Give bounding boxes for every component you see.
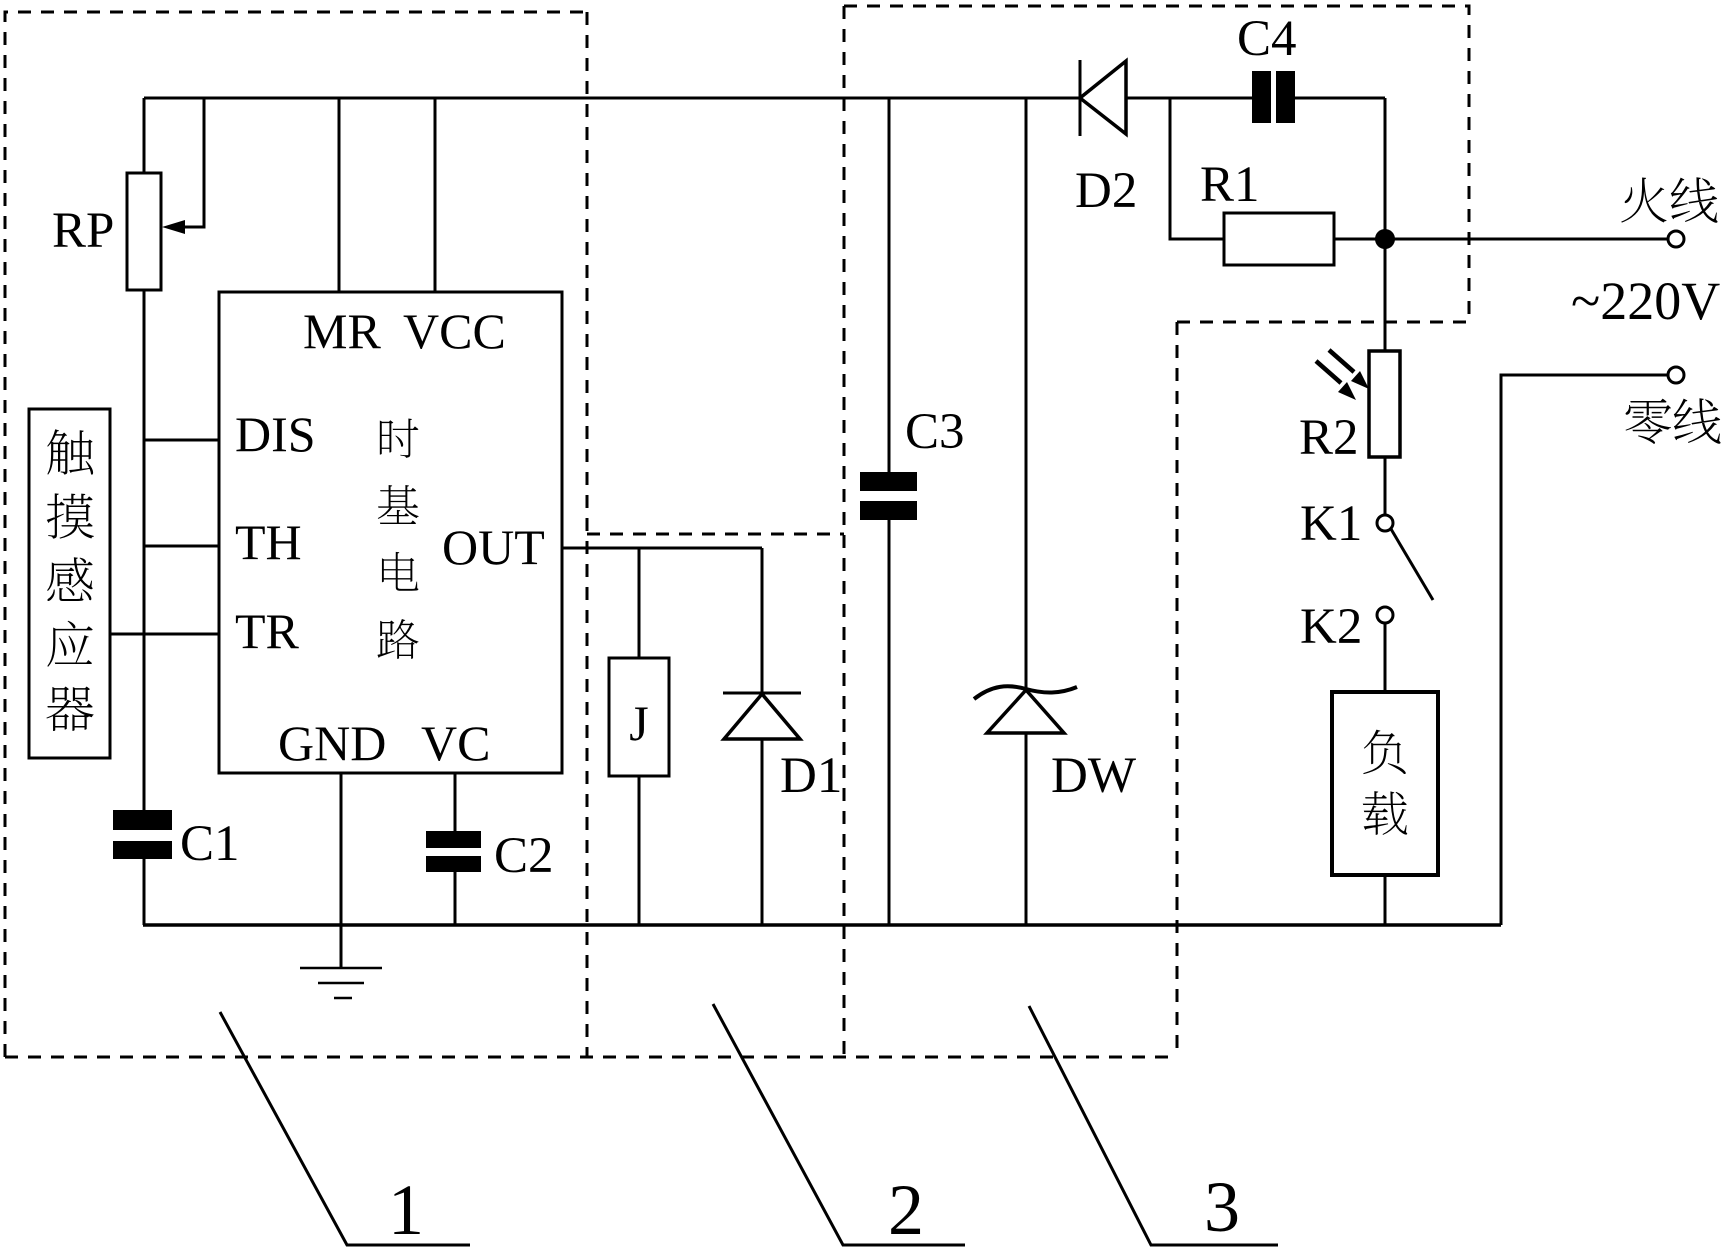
wire: neutral riser and terminal lead xyxy=(1501,375,1668,925)
svg-text:MR: MR xyxy=(303,303,381,359)
R2 light arrow 2 xyxy=(1316,361,1341,383)
wire: RP wiper from rail xyxy=(184,98,204,227)
svg-text:3: 3 xyxy=(1204,1167,1240,1247)
wire: load to bus xyxy=(1384,875,1387,925)
svg-text:C3: C3 xyxy=(905,404,965,460)
dashed power-supply box top and right xyxy=(844,6,1469,321)
switch contact K1 xyxy=(1377,515,1393,531)
leader line for label 1 xyxy=(220,1012,470,1245)
R2 light arrow 1 xyxy=(1329,350,1354,372)
wire: relay J to bus xyxy=(638,776,641,925)
wire: pin DIS stub xyxy=(144,439,219,442)
ground symbol xyxy=(300,968,382,998)
svg-text:VC: VC xyxy=(421,715,490,771)
leader line for label 2 xyxy=(713,1004,965,1245)
load box 负载 xyxy=(1332,692,1438,875)
diode D1 cathode bar xyxy=(723,692,801,695)
wire: R2 to K1 xyxy=(1384,457,1387,515)
resistor R1 body xyxy=(1224,213,1334,265)
svg-text:OUT: OUT xyxy=(442,519,545,575)
wire: pin TR from touch sensor xyxy=(110,633,219,636)
wire: top VCC rail xyxy=(144,97,1385,100)
svg-text:RP: RP xyxy=(52,203,114,259)
dashed box 3 (load switch section) top and left xyxy=(1177,322,1469,1057)
svg-text:1: 1 xyxy=(388,1170,424,1250)
wire: C1 to ground bus xyxy=(143,859,146,925)
svg-text:D1: D1 xyxy=(780,748,842,804)
svg-text:R1: R1 xyxy=(1200,157,1260,213)
dashed box 2 (relay drive section) top edge xyxy=(587,533,844,536)
wire: C2 to bus xyxy=(454,872,457,925)
wire: DW branch from rail to bus xyxy=(1025,98,1028,925)
zener DW triangle xyxy=(987,690,1064,733)
label 零线 xyxy=(1626,398,1721,443)
terminal: live wire 火线 xyxy=(1668,231,1684,247)
capacitor C1 plates xyxy=(113,810,172,830)
wire: drop to relay J xyxy=(638,548,641,658)
wire: pin GND down through bus to ground xyxy=(340,773,343,968)
svg-text:TR: TR xyxy=(235,603,300,659)
zener DW curved cathode xyxy=(974,686,1077,699)
diode D2 cathode bar xyxy=(1079,60,1082,136)
svg-text:K1: K1 xyxy=(1300,496,1362,552)
wire: pin VCC to rail xyxy=(434,98,437,292)
svg-text:D2: D2 xyxy=(1075,163,1137,219)
IC U1 time-base circuit box xyxy=(219,292,562,773)
wire: K2 to load xyxy=(1384,623,1387,692)
svg-text:C2: C2 xyxy=(494,828,554,884)
wire: RP bottom down to C1 xyxy=(143,290,146,811)
svg-text:C1: C1 xyxy=(180,816,240,872)
wire: D1 branch xyxy=(761,548,764,925)
wire: R1 to node and out to live terminal xyxy=(1334,238,1668,241)
capacitor C4 plates xyxy=(1252,71,1271,123)
wire: bottom common bus xyxy=(143,923,1501,927)
wire: pin VC down to C2 xyxy=(454,773,457,831)
IC text 时基电路 xyxy=(377,419,418,659)
capacitor C2 plates xyxy=(426,831,481,848)
svg-text:C4: C4 xyxy=(1237,11,1297,67)
touch sensor box 触摸感应器 xyxy=(29,409,110,758)
wire: C3 branch from rail to bus xyxy=(888,98,891,925)
load text 负载 xyxy=(1363,730,1407,835)
RP wiper arrowhead xyxy=(162,220,185,234)
svg-text:DW: DW xyxy=(1051,748,1137,804)
wire: pin MR to rail xyxy=(338,98,341,292)
capacitor C3 plates xyxy=(860,472,917,491)
diode D1 triangle xyxy=(724,694,800,739)
dashed bottom edge of boxes 1,2,3 xyxy=(5,1056,1177,1059)
wire: C4 right down to node, on to R2 xyxy=(1384,98,1387,352)
wire: pin TH stub xyxy=(144,545,219,548)
dashed box 1 (touch sensing section) xyxy=(5,12,587,1057)
diode D2 triangle xyxy=(1080,61,1126,134)
photoresistor R2 body xyxy=(1369,351,1400,457)
svg-text:VCC: VCC xyxy=(403,303,506,359)
touch sensor text 触摸感应器 xyxy=(46,429,94,731)
wire: pin OUT to relay branch xyxy=(562,547,762,550)
svg-text:2: 2 xyxy=(888,1170,924,1250)
wire: drop after D2 to R1 xyxy=(1170,98,1224,239)
dashed box 2 right edge / power box left edge xyxy=(843,6,846,1057)
relay J box xyxy=(609,658,669,776)
label 火线 xyxy=(1621,177,1717,222)
switch contact K2 xyxy=(1377,607,1393,623)
wire: rail down to RP top xyxy=(143,98,146,173)
switch blade K1-K2 xyxy=(1391,529,1433,600)
svg-text:R2: R2 xyxy=(1299,410,1359,466)
terminal: neutral wire 零线 xyxy=(1668,367,1684,383)
leader line for label 3 xyxy=(1029,1006,1278,1245)
svg-text:DIS: DIS xyxy=(235,406,316,462)
svg-text:TH: TH xyxy=(235,514,302,570)
svg-text:K2: K2 xyxy=(1300,599,1362,655)
svg-text:J: J xyxy=(629,695,648,751)
svg-text:GND: GND xyxy=(278,715,386,771)
potentiometer RP body xyxy=(127,173,161,290)
svg-text:~220V: ~220V xyxy=(1571,271,1720,331)
node: junction dot xyxy=(1375,229,1395,249)
